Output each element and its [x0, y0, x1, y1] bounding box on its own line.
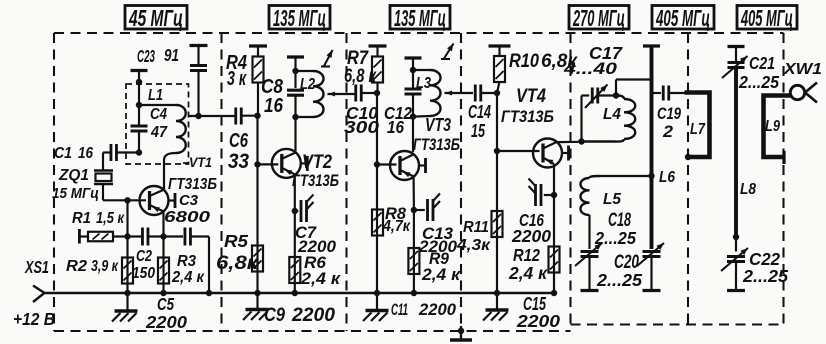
svg-text:R10: R10: [509, 50, 539, 71]
svg-text:2...25: 2...25: [742, 266, 789, 286]
svg-text:L6: L6: [659, 169, 676, 186]
svg-text:С1: С1: [54, 144, 72, 162]
svg-text:ГТ313Б: ГТ313Б: [292, 171, 339, 190]
svg-text:4,7к: 4,7к: [382, 217, 411, 235]
svg-text:VT2: VT2: [302, 151, 332, 172]
svg-text:ZQ1: ZQ1: [58, 167, 89, 184]
svg-text:4,3к: 4,3к: [456, 236, 492, 254]
svg-text:135 МГц: 135 МГц: [273, 5, 326, 31]
svg-text:С2: С2: [136, 248, 152, 266]
svg-text:2200: 2200: [511, 226, 551, 246]
svg-text:ГТ313Б: ГТ313Б: [501, 108, 554, 126]
svg-text:270 МГц: 270 МГц: [572, 5, 625, 31]
svg-text:XW1: XW1: [783, 60, 822, 78]
svg-text:6,8 к: 6,8 к: [344, 65, 377, 86]
svg-text:С23: С23: [137, 47, 155, 67]
svg-text:2,4 к: 2,4 к: [171, 268, 205, 286]
svg-text:VT4: VT4: [516, 85, 546, 106]
svg-text:150: 150: [132, 264, 156, 282]
svg-text:3,9 к: 3,9 к: [91, 258, 119, 276]
svg-text:135 МГц: 135 МГц: [394, 5, 446, 31]
svg-text:16: 16: [264, 94, 284, 117]
svg-text:2: 2: [662, 121, 673, 140]
svg-text:2200: 2200: [418, 300, 457, 319]
svg-text:405 МГц: 405 МГц: [740, 5, 793, 31]
svg-text:15 МГц: 15 МГц: [52, 185, 99, 202]
svg-text:С11: С11: [391, 299, 408, 319]
svg-text:С9: С9: [264, 304, 285, 325]
svg-text:L3: L3: [416, 75, 431, 93]
svg-text:L5: L5: [603, 191, 621, 208]
svg-text:L1: L1: [148, 87, 163, 105]
svg-text:405 МГц: 405 МГц: [655, 5, 710, 31]
svg-text:С21: С21: [749, 53, 775, 73]
svg-text:2200: 2200: [145, 312, 187, 332]
svg-text:6800: 6800: [164, 207, 211, 225]
svg-text:16: 16: [78, 145, 94, 162]
svg-text:R2: R2: [66, 257, 87, 275]
svg-text:R1: R1: [72, 210, 91, 228]
svg-text:2...25: 2...25: [594, 227, 636, 248]
svg-text:L8: L8: [740, 181, 757, 198]
svg-text:VT1: VT1: [189, 154, 212, 170]
svg-text:1,5 к: 1,5 к: [96, 210, 125, 228]
svg-text:С4: С4: [150, 106, 167, 123]
svg-text:С6: С6: [229, 129, 248, 152]
svg-text:С14: С14: [468, 103, 491, 123]
svg-text:R11: R11: [463, 218, 489, 236]
svg-text:ХS1: ХS1: [24, 258, 49, 278]
svg-text:16: 16: [387, 117, 405, 137]
svg-text:45 МГц: 45 МГц: [128, 6, 183, 32]
svg-text:3 к: 3 к: [227, 67, 247, 90]
svg-text:6,8к: 6,8к: [216, 252, 260, 273]
svg-text:ГТ313Б: ГТ313Б: [168, 176, 217, 193]
svg-text:2200: 2200: [516, 311, 561, 331]
svg-text:2,4 к: 2,4 к: [300, 268, 341, 287]
svg-text:2...25: 2...25: [596, 270, 643, 290]
svg-text:4...40: 4...40: [563, 60, 617, 79]
svg-text:2...25: 2...25: [738, 72, 779, 92]
svg-text:2,4 к: 2,4 к: [421, 264, 461, 284]
svg-text:R5: R5: [224, 230, 249, 251]
svg-text:300: 300: [344, 117, 379, 137]
svg-text:2,4 к: 2,4 к: [508, 263, 548, 283]
svg-text:L7: L7: [690, 121, 706, 139]
svg-text:33: 33: [228, 150, 249, 173]
svg-text:47: 47: [150, 123, 168, 141]
svg-text:L9: L9: [765, 118, 780, 136]
svg-text:91: 91: [164, 46, 179, 65]
svg-text:VT3: VT3: [425, 115, 451, 135]
svg-text:+12 В: +12 В: [13, 309, 55, 329]
svg-text:2200: 2200: [291, 305, 335, 326]
svg-text:ГТ313Б: ГТ313Б: [413, 135, 460, 154]
svg-text:L4: L4: [603, 106, 621, 123]
svg-text:15: 15: [471, 122, 485, 142]
svg-text:L2: L2: [300, 76, 315, 94]
